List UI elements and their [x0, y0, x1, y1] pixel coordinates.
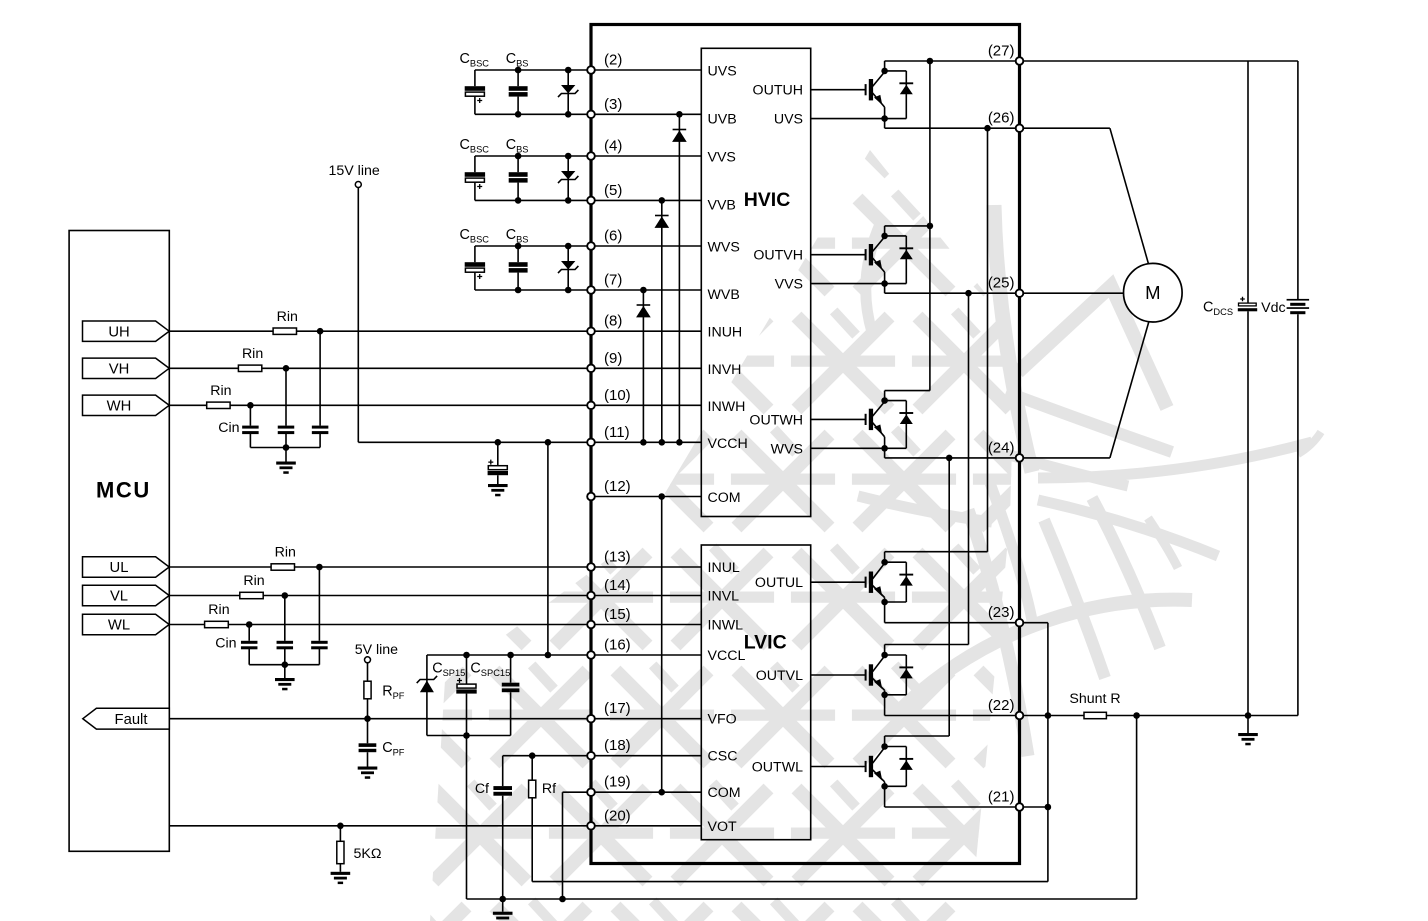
svg-text:(5): (5) — [604, 182, 622, 199]
junction 5K — [337, 823, 344, 830]
wire — [339, 826, 341, 842]
svg-text:(21): (21) — [988, 789, 1015, 806]
wire — [510, 692, 512, 735]
junction RPF/CPF — [364, 715, 371, 722]
capacitor CSP15 — [456, 678, 476, 694]
capacitor CBSC (U) — [465, 86, 485, 103]
pin (4) terminal — [587, 152, 595, 160]
wire pin (7) to IC — [591, 289, 701, 291]
junction — [515, 111, 522, 118]
pin (18) terminal — [587, 752, 595, 760]
wire 15V to VCCL — [547, 442, 549, 655]
wire — [169, 330, 273, 332]
wire — [474, 97, 476, 115]
capacitor CBSC (V) — [465, 172, 485, 189]
wire — [502, 756, 504, 786]
junction Rf top — [529, 752, 536, 759]
svg-text:(10): (10) — [604, 387, 631, 404]
svg-text:MCU: MCU — [96, 478, 151, 503]
battery Vdc — [1287, 299, 1310, 314]
wire CSC (18) — [503, 755, 591, 757]
pin (23) terminal — [1016, 619, 1024, 627]
svg-text:Cf: Cf — [475, 781, 489, 797]
capacitor Cin (VL) — [277, 641, 294, 650]
transistor Q4 (U low) (IGBT with freewheel diode) — [811, 552, 988, 623]
wire pin (10) to IC — [591, 404, 701, 406]
junction VCCH cap — [495, 439, 502, 446]
node Q5 (V low) collector — [881, 652, 888, 659]
wire (27) to Vdc — [1020, 60, 1298, 62]
wire — [367, 752, 369, 766]
wire — [285, 448, 287, 462]
wire — [319, 434, 321, 448]
svg-text:COM: COM — [708, 785, 741, 801]
pin (5) terminal — [587, 197, 595, 205]
wire (24) to motor — [1020, 457, 1110, 459]
wire UVB bootstrap column — [678, 114, 680, 442]
svg-text:VL: VL — [110, 589, 128, 605]
wire — [497, 475, 499, 484]
wire — [474, 183, 476, 201]
junction V phase drop — [965, 290, 972, 297]
pin (20) terminal — [587, 822, 595, 830]
svg-text:VVS: VVS — [775, 277, 803, 293]
wire — [466, 655, 468, 684]
junction WH filter — [247, 402, 254, 409]
wire emitter sense — [811, 118, 885, 120]
wire U phase to low collector — [987, 128, 989, 552]
node Q4 (U low) collector — [881, 559, 888, 566]
wire — [367, 719, 369, 744]
ground (Cf) — [493, 912, 513, 921]
wire 15V line vertical — [357, 188, 359, 443]
svg-text:(8): (8) — [604, 313, 622, 330]
wire bootstrap U top rail — [475, 69, 591, 71]
pin (3) terminal — [587, 111, 595, 119]
capacitor CBS (W) — [509, 262, 528, 272]
svg-text:Rf: Rf — [542, 781, 556, 797]
zener diode (VCCL clamp) — [417, 676, 437, 692]
wire WH to pin — [230, 404, 591, 406]
junction CSC sense — [1133, 712, 1140, 719]
junction — [507, 652, 514, 659]
svg-text:M: M — [1145, 282, 1160, 303]
wire pin (3) to IC — [591, 113, 701, 115]
bootstrap diode (W) — [558, 261, 578, 273]
node VVB — [659, 197, 666, 204]
pin (16) terminal — [587, 651, 595, 659]
wire VH to pin — [262, 367, 591, 369]
wire — [284, 596, 286, 641]
capacitor CBS (U) — [509, 86, 528, 96]
svg-text:VOT: VOT — [708, 819, 737, 835]
resistor Rin (WH) — [207, 402, 230, 408]
wire — [169, 566, 271, 568]
svg-text:(11): (11) — [604, 424, 630, 441]
svg-text:OUTVH: OUTVH — [753, 248, 803, 264]
wire (21) right — [1020, 806, 1048, 808]
svg-text:(4): (4) — [604, 138, 622, 155]
junction — [565, 111, 572, 118]
junction VH filter — [283, 365, 290, 372]
wire W phase to low collector — [948, 458, 950, 736]
wire — [474, 273, 476, 290]
wire — [502, 899, 504, 912]
node VH input tag — [83, 358, 170, 378]
wire V phase to low collector — [968, 293, 970, 644]
svg-text:WL: WL — [108, 618, 130, 634]
svg-text:Cin: Cin — [215, 636, 236, 652]
wire — [517, 156, 519, 172]
wire 15V to VCCH pin (11) — [358, 441, 591, 443]
svg-text:LVIC: LVIC — [744, 632, 787, 654]
svg-text:Rin: Rin — [275, 545, 296, 561]
svg-text:(20): (20) — [604, 807, 631, 824]
transistor Q5 (V low) (IGBT with freewheel diode) — [811, 645, 969, 716]
svg-text:VCCH: VCCH — [708, 436, 748, 452]
node Q5 (V low) emitter — [881, 692, 888, 699]
wire motor W diagonal — [1110, 322, 1149, 458]
wire shunt to DC minus — [1106, 715, 1298, 717]
node UH input tag — [83, 321, 170, 341]
junction — [282, 661, 289, 668]
wire — [567, 70, 569, 114]
junction — [499, 896, 506, 903]
wire emitter sense — [811, 447, 885, 449]
svg-text:Rin: Rin — [210, 383, 231, 399]
wire pin (14) to IC — [591, 595, 701, 597]
svg-text:CSC: CSC — [708, 749, 738, 765]
svg-text:COM: COM — [708, 490, 741, 506]
wire pin (9) to IC — [591, 367, 701, 369]
wire — [169, 595, 240, 597]
wire CSC sense drop — [1136, 716, 1138, 900]
wire — [318, 649, 320, 665]
wire P rail (27) inside — [885, 60, 1020, 62]
svg-text:5V line: 5V line — [355, 642, 398, 658]
wire — [497, 442, 499, 465]
transistor Q2 (V high) (IGBT with freewheel diode) — [811, 226, 930, 293]
wire VL to pin — [263, 595, 591, 597]
junction VCCH — [640, 439, 647, 446]
svg-text:WH: WH — [107, 399, 132, 415]
wire COM (19) — [563, 791, 592, 793]
pin (13) terminal — [587, 563, 595, 571]
capacitor CBS (V) — [509, 172, 528, 182]
svg-text:Rin: Rin — [242, 346, 263, 362]
wire pin (8) to IC — [591, 330, 701, 332]
node Q3 (W high) emitter — [881, 445, 888, 452]
wire pin (18) to IC — [591, 755, 701, 757]
wire pin (4) to IC — [591, 155, 701, 157]
wire — [249, 405, 251, 425]
diode DV (VCC to VVB) — [655, 216, 669, 228]
junction UH filter — [317, 328, 324, 335]
wire — [567, 156, 569, 200]
resistor Rf — [529, 780, 536, 798]
wire bootstrap W bottom rail — [475, 289, 591, 291]
wire — [517, 97, 519, 115]
svg-text:WVS: WVS — [771, 441, 803, 457]
svg-text:VH: VH — [109, 362, 130, 378]
wire pin (13) to IC — [591, 566, 701, 568]
wire bootstrap U bottom rail — [475, 113, 591, 115]
wire (23) right — [1020, 622, 1048, 624]
wire VVB bootstrap column — [661, 200, 663, 442]
node 15V line terminal — [355, 182, 361, 188]
wire — [567, 246, 569, 290]
ground (CPF) — [358, 767, 378, 779]
junction UL filter — [316, 564, 323, 571]
wire bootstrap V bottom rail — [475, 199, 591, 201]
wire — [517, 70, 519, 86]
junction DC minus ground — [1245, 712, 1252, 719]
pin (14) terminal — [587, 592, 595, 600]
pin (27) terminal — [1016, 57, 1024, 65]
wire CSP15 bottom rail — [427, 735, 511, 737]
wire — [285, 434, 287, 448]
pin (9) terminal — [587, 365, 595, 373]
svg-text:UVB: UVB — [708, 111, 737, 127]
wire Cin bottom rail — [250, 447, 320, 449]
capacitor Cin (WH) — [242, 426, 259, 435]
junction — [565, 287, 572, 294]
pin (12) terminal — [587, 493, 595, 501]
svg-text:VVS: VVS — [708, 150, 736, 166]
svg-text:(12): (12) — [604, 478, 631, 495]
wire pin (11) to IC — [591, 441, 701, 443]
wire Rf drop — [531, 798, 533, 882]
wire pin (16) to IC — [591, 654, 701, 656]
wire — [426, 655, 428, 736]
wire pin (12) to IC — [591, 496, 701, 498]
wire U phase (26) — [885, 127, 1020, 129]
capacitor CBSC (W) — [465, 262, 485, 279]
svg-text:(13): (13) — [604, 549, 631, 566]
wire (22) to shunt — [1020, 715, 1085, 717]
svg-text:(27): (27) — [988, 43, 1015, 60]
wire pin (6) to IC — [591, 245, 701, 247]
svg-text:(15): (15) — [604, 606, 631, 623]
junction — [565, 153, 572, 160]
capacitor CPF — [359, 743, 377, 752]
wire — [517, 183, 519, 201]
MCU block — [69, 231, 169, 852]
wire — [474, 246, 476, 262]
svg-text:INWL: INWL — [708, 618, 744, 634]
svg-text:(25): (25) — [988, 275, 1015, 292]
wire motor U diagonal — [1110, 128, 1149, 264]
wire UL to pin — [295, 566, 592, 568]
ground (VCCH cap) — [488, 484, 508, 496]
pin (21) terminal — [1016, 803, 1024, 811]
svg-text:INUL: INUL — [708, 560, 740, 576]
transistor Q3 (W high) (IGBT with freewheel diode) — [811, 391, 930, 458]
wire bootstrap V top rail — [475, 155, 591, 157]
pin (8) terminal — [587, 327, 595, 335]
wire bootstrap W top rail — [475, 245, 591, 247]
wire — [1247, 716, 1249, 734]
motor M — [1124, 263, 1183, 322]
wire pin (20) to IC — [591, 825, 701, 827]
junction — [463, 732, 470, 739]
wire pin (17) to IC — [591, 718, 701, 720]
capacitor Cin (VH) — [278, 426, 295, 435]
resistor Rin (VH) — [238, 365, 261, 371]
svg-text:HVIC: HVIC — [744, 189, 791, 211]
junction — [565, 197, 572, 204]
wire — [248, 625, 250, 641]
node Q1 (U high) collector — [881, 68, 888, 75]
svg-text:WVB: WVB — [708, 287, 740, 303]
wire NV (22) — [885, 715, 1020, 717]
wire — [367, 699, 369, 719]
junction U phase drop — [984, 125, 991, 132]
pin (26) terminal — [1016, 124, 1024, 132]
svg-text:(7): (7) — [604, 272, 622, 289]
junction — [515, 197, 522, 204]
svg-text:INVL: INVL — [708, 589, 740, 605]
pin (22) terminal — [1016, 712, 1024, 720]
svg-text:(16): (16) — [604, 637, 631, 654]
ground (5K) — [331, 872, 351, 884]
wire (25) to motor — [1020, 292, 1124, 294]
wire — [319, 331, 321, 425]
wire Cin low bottom rail — [249, 664, 319, 666]
wire ground return rail — [467, 898, 1137, 900]
junction P rail — [927, 58, 934, 65]
wire Vdc top — [1297, 61, 1299, 299]
wire UH to pin — [297, 330, 592, 332]
wire — [474, 70, 476, 86]
junction COM (19) — [658, 789, 665, 796]
wire — [248, 649, 250, 665]
pin (17) terminal — [587, 715, 595, 723]
ground (Cin high) — [276, 462, 296, 474]
svg-text:(22): (22) — [988, 697, 1015, 714]
junction — [515, 243, 522, 250]
HVIC block U1 — [701, 48, 810, 516]
node Q6 (W low) emitter — [881, 783, 888, 790]
node WL input tag — [83, 614, 170, 634]
wire VOT (20) — [169, 825, 591, 827]
junction VCCL — [545, 652, 552, 659]
node WH input tag — [83, 395, 170, 415]
wire — [510, 655, 512, 683]
capacitor VCCH decoupling — [488, 460, 508, 476]
node Q6 (W low) collector — [881, 743, 888, 750]
junction VCCH — [659, 439, 666, 446]
wire — [474, 156, 476, 172]
wire — [169, 624, 204, 626]
resistor Rin (WL) — [205, 621, 229, 627]
node Q2 (V high) emitter — [881, 280, 888, 287]
svg-text:Fault: Fault — [115, 712, 148, 728]
wire — [169, 367, 238, 369]
svg-text:Vdc: Vdc — [1261, 300, 1285, 316]
svg-text:(9): (9) — [604, 350, 622, 367]
pin (15) terminal — [587, 621, 595, 629]
wire NU (23) — [885, 622, 1020, 624]
svg-text:15V line: 15V line — [329, 163, 380, 179]
svg-text:Shunt R: Shunt R — [1069, 691, 1120, 707]
transistor Q1 (U high) (IGBT with freewheel diode) — [811, 61, 914, 128]
wire — [285, 368, 287, 425]
junction — [565, 67, 572, 74]
wire — [284, 649, 286, 665]
wire WVB bootstrap column — [642, 290, 644, 442]
svg-text:Rin: Rin — [243, 573, 264, 589]
wire — [318, 567, 320, 641]
junction — [559, 896, 566, 903]
wire — [249, 434, 251, 448]
svg-text:UVS: UVS — [708, 64, 737, 80]
svg-text:(26): (26) — [988, 110, 1015, 127]
svg-text:INVH: INVH — [708, 362, 742, 378]
wire emitter sense — [811, 283, 885, 285]
svg-text:UL: UL — [110, 560, 129, 576]
svg-text:(14): (14) — [604, 577, 631, 594]
svg-text:(17): (17) — [604, 700, 631, 717]
svg-text:(24): (24) — [988, 439, 1015, 456]
svg-text:VVB: VVB — [708, 197, 736, 213]
svg-text:OUTUH: OUTUH — [753, 83, 803, 99]
node Q1 (U high) emitter — [881, 115, 888, 122]
ground (Cin low) — [275, 678, 295, 690]
junction 15V to VCCL — [545, 439, 552, 446]
node UL input tag — [83, 557, 170, 577]
junction N bus (22) — [1045, 712, 1052, 719]
svg-text:(19): (19) — [604, 774, 631, 791]
wire — [466, 694, 468, 736]
node WVB — [640, 287, 647, 294]
svg-text:VCCL: VCCL — [708, 648, 746, 664]
wire (26) to motor — [1020, 127, 1110, 129]
IPM module outline — [591, 25, 1020, 864]
diode DU (VCC to UVB) — [673, 130, 687, 142]
junction — [515, 287, 522, 294]
wire CSC return rail — [532, 881, 1048, 883]
node Fault tag — [83, 708, 170, 729]
wire — [517, 273, 519, 290]
capacitor Cin (WL) — [241, 641, 258, 650]
resistor Shunt R — [1084, 712, 1106, 718]
pin (11) terminal — [587, 439, 595, 447]
wire CDCS bottom — [1247, 311, 1249, 715]
LVIC block U2 — [701, 545, 810, 840]
resistor 5K — [337, 841, 344, 863]
pin (7) terminal — [587, 286, 595, 294]
svg-text:(23): (23) — [988, 604, 1015, 621]
wire N bus vertical — [1047, 623, 1049, 882]
resistor Rin (UH) — [273, 328, 296, 334]
svg-text:5KΩ: 5KΩ — [354, 846, 382, 862]
bootstrap diode (U) — [558, 85, 578, 97]
capacitor CSPC15 — [502, 683, 520, 693]
svg-text:WVS: WVS — [708, 240, 740, 256]
wire VCCL rail (16) — [427, 654, 591, 656]
wire pin (2) to IC — [591, 69, 701, 71]
pin (10) terminal — [587, 402, 595, 410]
svg-text:Rin: Rin — [208, 602, 229, 618]
junction VL filter — [282, 592, 289, 599]
diode DW (VCC to WVB) — [637, 305, 651, 317]
wire — [517, 246, 519, 262]
wire Vdc bottom — [1297, 314, 1299, 715]
capacitor Cf — [493, 786, 512, 796]
resistor Rin (VL) — [240, 592, 263, 598]
svg-text:(18): (18) — [604, 737, 631, 754]
